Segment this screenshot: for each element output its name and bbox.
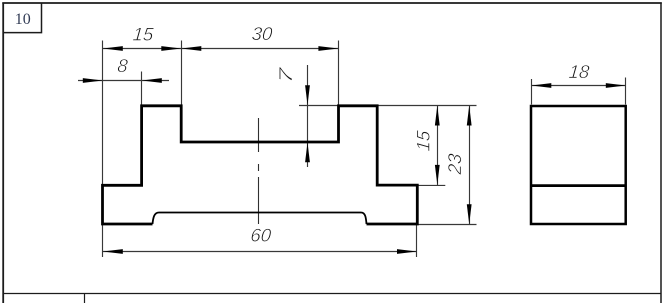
arrow 60 right: [397, 249, 417, 254]
extension line x=141.7: [141, 72, 143, 106]
dim text 8: [117, 55, 130, 76]
frame border left: [2, 3, 4, 303]
extension line x=181.3: [181, 41, 183, 106]
arrow 8 left (outside): [83, 78, 103, 83]
title block divider: [84, 293, 86, 303]
arrow 18 left: [531, 83, 551, 88]
frame border right: [660, 3, 662, 303]
extension line x=531.2 (18 left): [531, 79, 533, 105]
frame border top: [2, 2, 662, 4]
dim text 23 (rotated): [444, 152, 465, 176]
dim text 18: [568, 61, 591, 82]
arrow 30 right: [318, 46, 338, 51]
arrow 18 right: [606, 83, 626, 88]
dimension line 8 (y=80) left tail: [78, 80, 169, 82]
dimension line 60 (y=251.5): [103, 251, 417, 253]
svg-text:15: 15: [413, 129, 434, 152]
arrow 15r top: [435, 106, 440, 126]
dim text 15: [132, 23, 155, 44]
extension line x=416.7 lower: [416, 224, 418, 257]
side view mid line: [531, 184, 626, 187]
extension line x=625.9 (18 right): [625, 78, 627, 105]
arrow 15 right: [161, 46, 181, 51]
svg-text:23: 23: [444, 152, 465, 176]
dimension line 15/30 (y=48): [103, 48, 339, 50]
arrow 23 top: [467, 106, 472, 126]
arrow 60 left: [103, 249, 123, 254]
dimension line 23 (x=469.2): [469, 106, 471, 225]
extension line x=338.4: [338, 41, 340, 106]
svg-text:60: 60: [250, 225, 273, 246]
front view outline: [103, 106, 418, 224]
svg-text:10: 10: [15, 11, 31, 28]
arrow 7 bottom (outside, points up): [305, 142, 310, 162]
dim text 7 (rotated): [275, 66, 296, 85]
extension line left (x=102.3 upper): [102, 41, 104, 186]
side view rectangle: [531, 106, 626, 224]
arrow 8 right (outside): [142, 78, 162, 83]
dimension line 15 right (x=437.3): [437, 106, 439, 186]
dim text 15 right (rotated): [413, 129, 434, 152]
svg-text:15: 15: [132, 23, 155, 44]
extension line right step (y=184.9): [418, 184, 446, 186]
arrow 15 left: [103, 46, 123, 51]
front view bottom relief groove: [153, 213, 367, 225]
extension line bottom (y=224.3): [418, 224, 477, 226]
sheet number box: [3, 3, 42, 33]
svg-text:30: 30: [251, 23, 274, 44]
dimension line 18 (y=85): [531, 85, 626, 87]
extension line top edge (y=105.5): [299, 105, 477, 107]
svg-text:7: 7: [275, 66, 296, 85]
dimension line 7 (vertical x=307): [307, 65, 309, 167]
arrow 23 bottom: [467, 204, 472, 224]
arrow 30 left: [181, 46, 201, 51]
svg-text:18: 18: [568, 61, 591, 82]
arrow 15r bottom: [435, 165, 440, 185]
dim text 30: [251, 23, 274, 44]
title block top line: [3, 293, 661, 295]
arrow 7 top (outside, points down): [305, 85, 310, 105]
extension line left (x=102.3 lower): [102, 224, 104, 257]
centerline (dash-dot): [258, 118, 260, 224]
dim text 60: [250, 225, 273, 246]
